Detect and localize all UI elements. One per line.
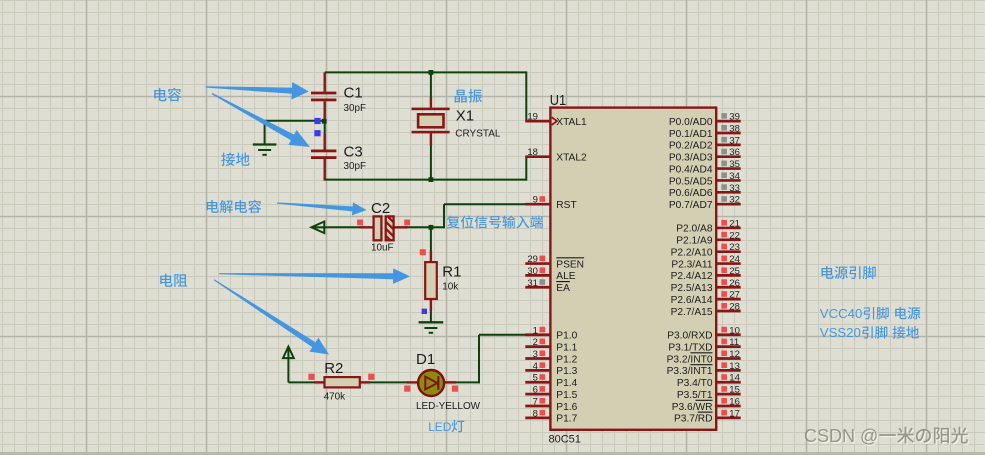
- annotation label 电解电容: [207, 200, 262, 213]
- capacitor C1: [324, 72, 326, 91]
- annotation label 复位信号输入端: [447, 215, 543, 228]
- blue origin markers near ground junction: [314, 118, 320, 124]
- pin 33 (P0.6/AD6): [716, 191, 741, 194]
- pin 9 (RST): [525, 203, 550, 206]
- wire: ground spur horizontal: [265, 120, 325, 122]
- annotation arrow to R1: [219, 268, 410, 284]
- wire: to R2 left: [288, 381, 325, 383]
- svg-text:10uF: 10uF: [371, 242, 394, 253]
- svg-text:P2.0/A8: P2.0/A8: [676, 224, 713, 235]
- LED D1: [407, 381, 418, 383]
- wire: vertical rise to XTAL2 pin 18: [525, 157, 527, 181]
- svg-text:XTAL2: XTAL2: [556, 153, 587, 164]
- pin 11 (P3.1/TXD): [716, 345, 741, 348]
- svg-text:P0.1/AD1: P0.1/AD1: [669, 129, 713, 140]
- svg-text:2: 2: [533, 337, 538, 348]
- annotation arrow to R2: [214, 279, 329, 354]
- pin 2 (P1.1): [525, 345, 550, 348]
- svg-text:XTAL1: XTAL1: [556, 117, 587, 128]
- svg-text:P0.7/AD7: P0.7/AD7: [669, 200, 713, 211]
- svg-text:17: 17: [729, 408, 740, 419]
- svg-text:10k: 10k: [442, 281, 458, 292]
- svg-text:P2.5/A13: P2.5/A13: [671, 283, 713, 294]
- svg-text:C2: C2: [371, 200, 390, 217]
- pin 7 (P1.6): [525, 405, 550, 408]
- pin 22 (P2.1/A9): [716, 238, 741, 241]
- svg-text:X1: X1: [456, 108, 474, 125]
- watermark CSDN @一米の阳光: [804, 426, 969, 447]
- svg-text:CSDN @: CSDN @: [804, 426, 878, 446]
- pin 3 (P1.2): [525, 357, 550, 360]
- junction: bottom wire / crystal: [429, 177, 434, 182]
- svg-text:P1.4: P1.4: [556, 378, 577, 389]
- svg-text:19: 19: [527, 112, 538, 123]
- pin 5 (P1.4): [525, 381, 550, 384]
- wire: C1/C3 midpoint segment: [324, 119, 326, 136]
- pin 35 (P0.4/AD4): [716, 167, 741, 170]
- pin 37 (P0.2/AD2): [716, 143, 741, 146]
- svg-text:P3.2/INT0: P3.2/INT0: [667, 354, 713, 365]
- svg-text:36: 36: [729, 147, 740, 158]
- svg-text:23: 23: [729, 242, 740, 253]
- svg-text:P0.5/AD5: P0.5/AD5: [669, 176, 713, 187]
- svg-text:24: 24: [729, 254, 740, 265]
- svg-text:9: 9: [533, 195, 538, 206]
- pin 16 (P3.6/WR): [716, 405, 741, 408]
- pin 12 (P3.2/INT0): [716, 357, 741, 360]
- pin 21 (P2.0/A8): [716, 227, 741, 230]
- svg-text:35: 35: [729, 159, 740, 170]
- svg-text:13: 13: [729, 361, 740, 372]
- svg-text:P2.2/A10: P2.2/A10: [671, 247, 713, 258]
- svg-text:12: 12: [729, 349, 740, 360]
- svg-text:P1.1: P1.1: [556, 342, 577, 353]
- svg-text:37: 37: [729, 135, 740, 146]
- svg-text:D1: D1: [416, 351, 435, 368]
- pin 13 (P3.3/INT1): [716, 369, 741, 372]
- wire: R1 bottom to ground: [430, 310, 432, 322]
- svg-text:R2: R2: [324, 360, 343, 377]
- pin 26 (P2.5/A13): [716, 286, 741, 289]
- svg-text:R1: R1: [442, 263, 461, 280]
- pin 19 (XTAL1): [525, 120, 550, 123]
- pin-end markers (red squares on wires): [357, 220, 363, 226]
- pin 6 (P1.5): [525, 393, 550, 396]
- pin 4 (P1.3): [525, 369, 550, 372]
- crystal X1: [430, 97, 432, 108]
- svg-text:P0.2/AD2: P0.2/AD2: [669, 141, 713, 152]
- annotation arrow to C3: [212, 93, 310, 147]
- annotation label 电容: [154, 88, 181, 102]
- annotation arrow to C2: [277, 202, 366, 215]
- svg-text:18: 18: [527, 147, 538, 158]
- annotation arrow to C1: [206, 82, 309, 100]
- svg-text:VCC40: VCC40: [820, 306, 863, 321]
- pin 23 (P2.2/A10): [716, 250, 741, 253]
- svg-text:11: 11: [729, 337, 739, 348]
- XTAL1 clock chevron: [552, 117, 557, 125]
- wire: LED right to riser: [445, 381, 480, 383]
- svg-text:LED-YELLOW: LED-YELLOW: [416, 401, 481, 412]
- pin 17 (P3.7/RD): [716, 417, 741, 420]
- svg-text:10: 10: [729, 325, 740, 336]
- wire: crystal bottom branch: [430, 145, 432, 180]
- wire: ground spur vertical: [264, 121, 266, 144]
- annotation label VCC40引脚 电源: [820, 306, 921, 321]
- svg-text:C3: C3: [344, 144, 363, 161]
- pin 38 (P0.1/AD1): [716, 132, 741, 135]
- svg-text:32: 32: [729, 195, 740, 206]
- svg-text:39: 39: [729, 112, 740, 123]
- annotation label LED灯: [428, 420, 464, 434]
- svg-text:25: 25: [729, 266, 740, 277]
- svg-text:31: 31: [527, 278, 538, 289]
- svg-text:P3.6/WR: P3.6/WR: [672, 402, 713, 413]
- svg-text:34: 34: [729, 171, 740, 182]
- svg-text:6: 6: [533, 385, 538, 396]
- svg-text:P0.4/AD4: P0.4/AD4: [669, 164, 713, 175]
- svg-text:30: 30: [527, 266, 538, 277]
- pin 24 (P2.3/A11): [716, 262, 741, 265]
- resistor R2: [314, 381, 325, 383]
- wire: R1 top branch: [430, 227, 432, 251]
- svg-text:P0.3/AD3: P0.3/AD3: [669, 153, 713, 164]
- svg-text:80C51: 80C51: [549, 433, 581, 445]
- svg-text:P2.7/A15: P2.7/A15: [671, 307, 713, 318]
- microcontroller U1 (80C51) body: [550, 108, 716, 430]
- svg-text:38: 38: [729, 123, 740, 134]
- svg-text:470k: 470k: [324, 392, 345, 403]
- svg-text:1: 1: [533, 325, 538, 336]
- svg-text:P0.0/AD0: P0.0/AD0: [669, 117, 713, 128]
- svg-text:28: 28: [729, 302, 740, 313]
- junction: ground spur on C1-C3 link: [322, 119, 327, 124]
- ground symbol (R1): [419, 321, 444, 323]
- wire: C1 top to XTAL1 (horizontal): [325, 71, 527, 73]
- pin 32 (P0.7/AD7): [716, 203, 741, 206]
- input terminal (reset net, left arrow): [312, 226, 324, 228]
- svg-text:P2.1/A9: P2.1/A9: [676, 236, 713, 247]
- wire: to P1.0 pin: [479, 334, 526, 336]
- junction: reset net / R1: [429, 225, 434, 230]
- pin 30 (ALE): [525, 274, 550, 277]
- svg-text:15: 15: [729, 385, 740, 396]
- pin 34 (P0.5/AD5): [716, 179, 741, 182]
- svg-text:29: 29: [527, 254, 538, 265]
- svg-text:P0.6/AD6: P0.6/AD6: [669, 188, 713, 199]
- svg-text:3: 3: [533, 349, 538, 360]
- annotation label 接地: [221, 152, 249, 166]
- svg-text:P1.5: P1.5: [556, 390, 577, 401]
- svg-text:LED: LED: [428, 420, 452, 434]
- svg-text:27: 27: [729, 290, 740, 301]
- svg-text:P3.5/T1: P3.5/T1: [677, 390, 713, 401]
- svg-text:P3.1/TXD: P3.1/TXD: [668, 342, 712, 353]
- svg-text:U1: U1: [550, 92, 566, 109]
- power terminal (up arrow): [287, 348, 289, 382]
- svg-text:14: 14: [729, 373, 740, 384]
- svg-text:7: 7: [533, 396, 538, 407]
- junction: top wire / crystal: [429, 70, 434, 75]
- svg-text:P1.3: P1.3: [556, 366, 577, 377]
- svg-text:16: 16: [729, 396, 740, 407]
- pin 14 (P3.4/T0): [716, 381, 741, 384]
- wire: C2 to RST corner: [406, 226, 444, 228]
- svg-text:ALE: ALE: [556, 271, 575, 282]
- svg-text:P2.4/A12: P2.4/A12: [671, 271, 713, 282]
- pin 1 (P1.0): [525, 333, 550, 336]
- svg-text:RST: RST: [556, 200, 576, 211]
- svg-text:P3.4/T0: P3.4/T0: [677, 378, 713, 389]
- blue origin marker at R1 bottom: [422, 309, 427, 314]
- svg-text:22: 22: [729, 230, 740, 241]
- pin 15 (P3.5/T1): [716, 393, 741, 396]
- svg-text:EA: EA: [556, 283, 570, 294]
- svg-text:CRYSTAL: CRYSTAL: [455, 128, 501, 139]
- pin 39 (P0.0/AD0): [716, 120, 741, 123]
- svg-text:VSS20: VSS20: [820, 325, 861, 340]
- pin 28 (P2.7/A15): [716, 310, 741, 313]
- svg-text:P3.3/INT1: P3.3/INT1: [667, 366, 713, 377]
- pin 8 (P1.7): [525, 417, 550, 420]
- svg-text:8: 8: [533, 408, 538, 419]
- svg-text:PSEN: PSEN: [556, 259, 584, 270]
- svg-text:C1: C1: [344, 85, 363, 102]
- pin 25 (P2.4/A12): [716, 274, 741, 277]
- resistor R1: [430, 251, 432, 263]
- annotation label VSS20引脚 接地: [820, 325, 919, 340]
- svg-text:21: 21: [729, 218, 740, 229]
- wire: R2 right to LED left: [359, 381, 408, 383]
- svg-text:P1.7: P1.7: [556, 414, 577, 425]
- svg-text:4: 4: [533, 361, 538, 372]
- wire: riser up to P1.0: [478, 335, 480, 384]
- pin 31 (EA): [525, 286, 550, 289]
- svg-text:P3.7/RD: P3.7/RD: [674, 414, 713, 425]
- svg-text:P1.6: P1.6: [556, 402, 577, 413]
- wire: C3 bottom to XTAL2 (horizontal): [325, 179, 527, 181]
- annotation label 电源引脚: [822, 266, 876, 279]
- pin 10 (P3.0/RXD): [716, 333, 741, 336]
- ground symbol (C1/C3 spur): [253, 143, 277, 145]
- svg-text:5: 5: [533, 373, 538, 384]
- wire: crystal top branch: [430, 72, 432, 97]
- svg-text:33: 33: [729, 183, 740, 194]
- svg-text:P1.0: P1.0: [556, 331, 577, 342]
- annotation label 晶振: [455, 89, 482, 103]
- svg-text:30pF: 30pF: [344, 103, 367, 114]
- capacitor C3: [324, 134, 326, 150]
- pin 27 (P2.6/A14): [716, 298, 741, 301]
- svg-text:P2.3/A11: P2.3/A11: [671, 259, 712, 270]
- wire: vertical drop to XTAL1 pin 19: [525, 71, 527, 121]
- pin 29 (PSEN): [525, 262, 550, 265]
- svg-text:30pF: 30pF: [344, 161, 367, 172]
- svg-text:26: 26: [729, 278, 740, 289]
- wire: terminal to C2: [324, 226, 361, 228]
- svg-text:P3.0/RXD: P3.0/RXD: [667, 331, 712, 342]
- svg-text:P2.6/A14: P2.6/A14: [671, 295, 713, 306]
- capacitor C2 (electrolytic): [360, 226, 375, 228]
- pin 18 (XTAL2): [525, 155, 550, 158]
- svg-text:P1.2: P1.2: [556, 354, 577, 365]
- annotation label 电阻: [160, 274, 187, 287]
- pin 36 (P0.3/AD3): [716, 155, 741, 158]
